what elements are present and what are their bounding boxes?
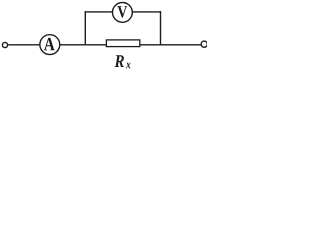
wire resistor to right terminal (through node B): [140, 44, 202, 46]
wire node B vertical branch down: [160, 11, 162, 45]
node left terminal: [2, 42, 7, 47]
node right terminal: [201, 41, 207, 47]
ammeter A: [40, 35, 60, 55]
value label Rx: [115, 55, 131, 68]
voltmeter V: [113, 3, 133, 23]
wire node A vertical branch up: [84, 11, 86, 45]
wire ammeter to resistor (through node A): [59, 44, 107, 46]
wire voltmeter to top branch right: [132, 11, 162, 13]
wire top branch left to voltmeter: [85, 11, 114, 13]
resistor Rx body: [106, 40, 139, 47]
wire left terminal to ammeter: [8, 44, 40, 46]
